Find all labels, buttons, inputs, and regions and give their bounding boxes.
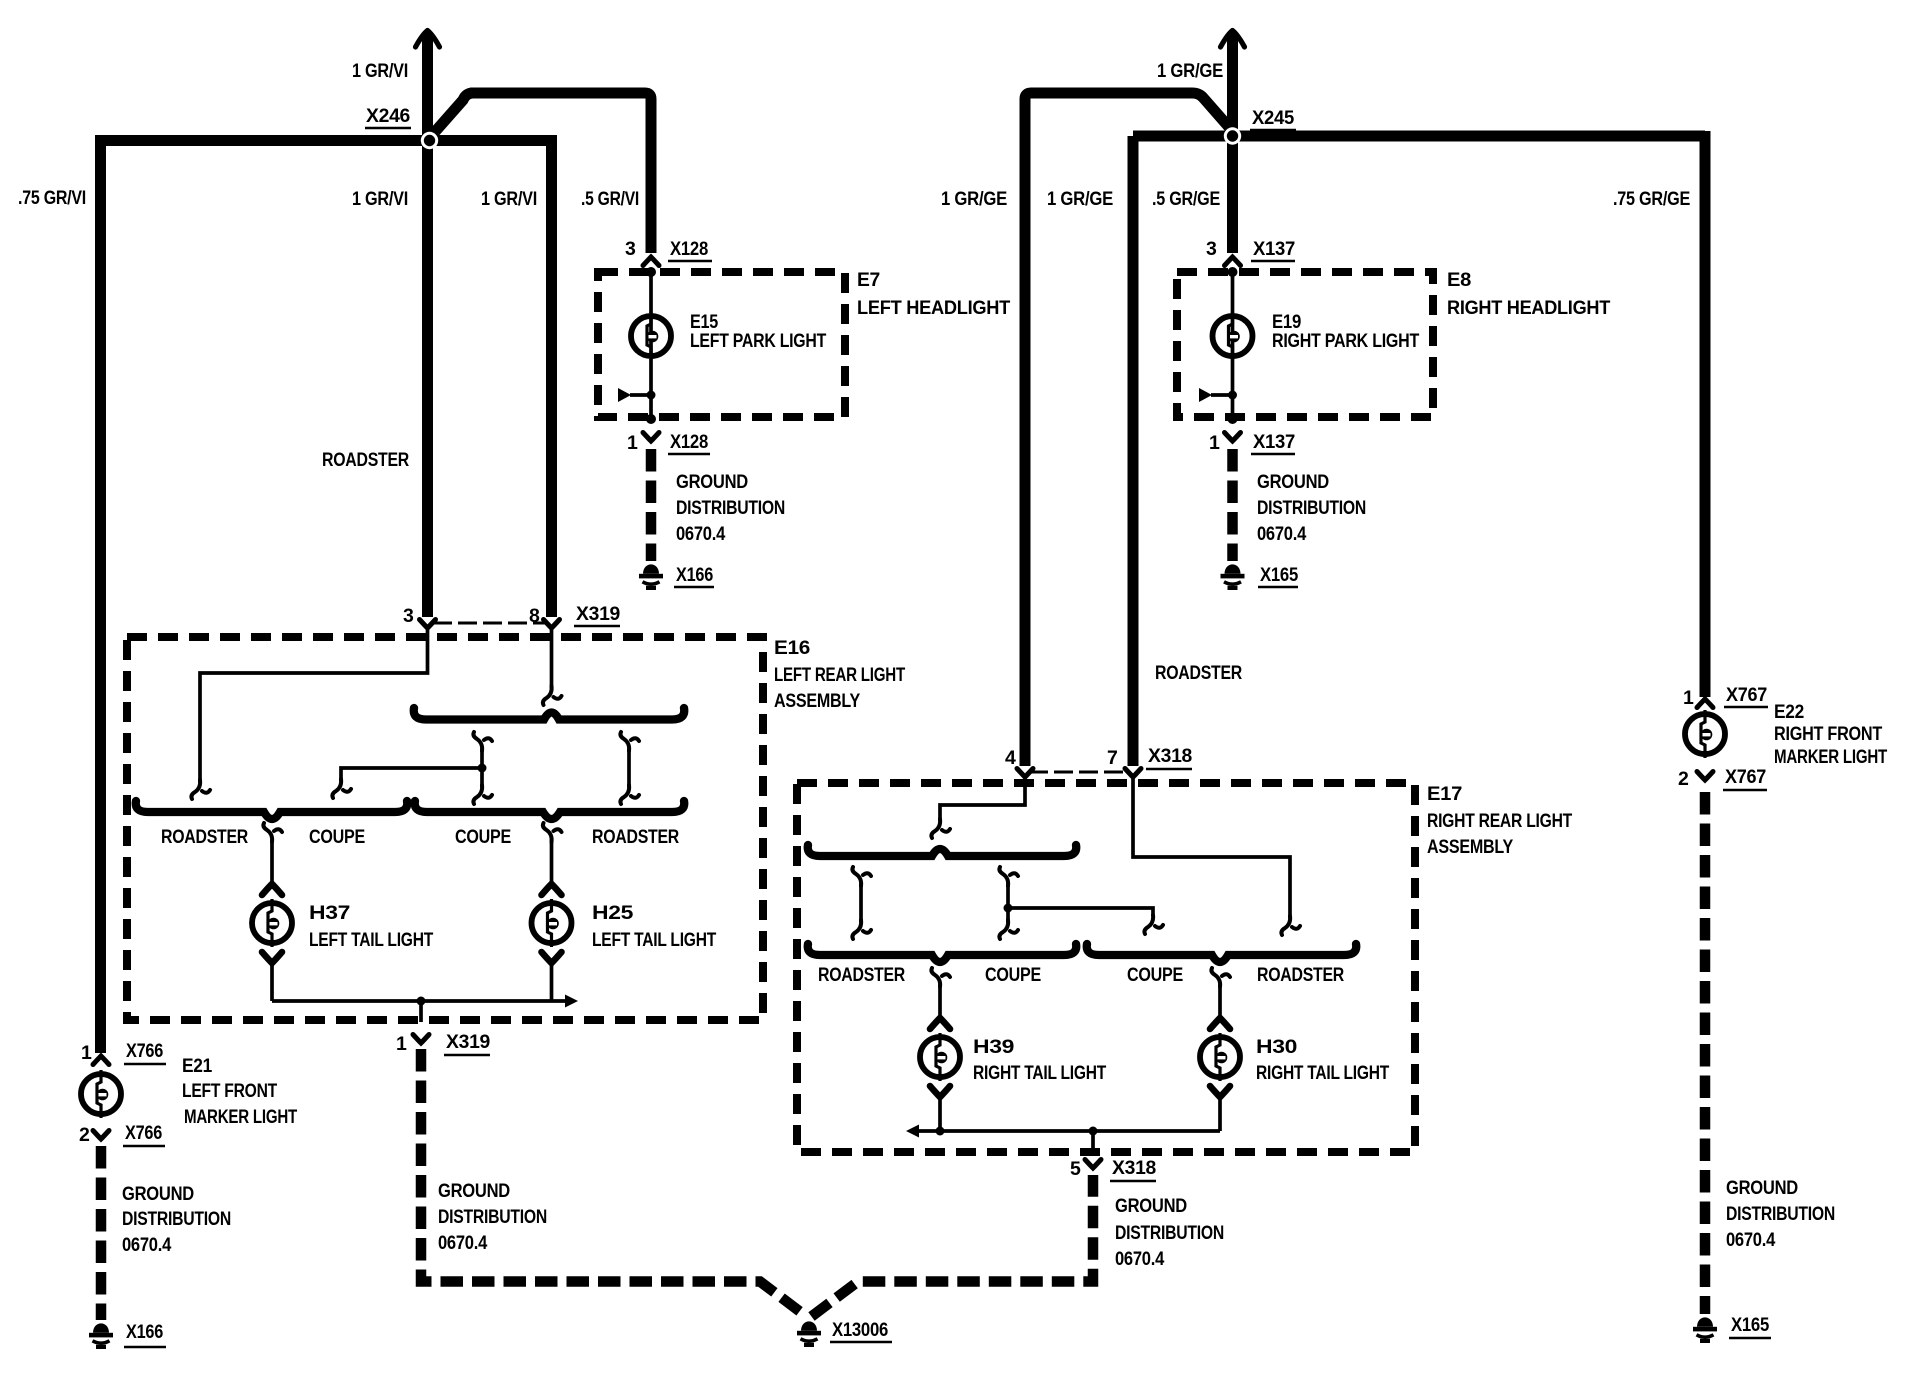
jumper E17 right xyxy=(999,867,1018,939)
svg-text:ASSEMBLY: ASSEMBLY xyxy=(1427,836,1513,858)
lamp H25 left tail light xyxy=(532,884,572,1001)
jumper E17 left xyxy=(852,867,871,939)
svg-text:1 GR/GE: 1 GR/GE xyxy=(1157,60,1223,82)
svg-text:ROADSTER: ROADSTER xyxy=(818,964,905,986)
wire E16 ground bus xyxy=(272,995,578,1023)
svg-text:0670.4: 0670.4 xyxy=(122,1234,171,1256)
pin 4 X318 xyxy=(1005,747,1033,777)
svg-text:COUPE: COUPE xyxy=(455,826,511,848)
wire pin3 branch to roadster xyxy=(200,628,428,780)
wire to H30 xyxy=(1218,988,1222,1018)
svg-text:RIGHT PARK LIGHT: RIGHT PARK LIGHT xyxy=(1272,330,1419,352)
node label X246 xyxy=(365,105,411,128)
svg-text:GROUND: GROUND xyxy=(676,471,748,493)
svg-text:GROUND: GROUND xyxy=(438,1180,510,1202)
bracket E16 lower left xyxy=(136,801,408,819)
svg-text:1: 1 xyxy=(1683,687,1694,709)
svg-text:0670.4: 0670.4 xyxy=(1257,523,1306,545)
svg-text:0670.4: 0670.4 xyxy=(1726,1229,1775,1251)
svg-text:COUPE: COUPE xyxy=(309,826,365,848)
svg-text:X128: X128 xyxy=(670,238,708,260)
wire 1 GR/VI vertical trunk xyxy=(416,31,440,618)
ground distribution text X319 xyxy=(438,1180,547,1254)
svg-text:MARKER LIGHT: MARKER LIGHT xyxy=(1774,746,1887,768)
svg-text:X766: X766 xyxy=(126,1040,163,1062)
lamp E15 left park light xyxy=(631,312,671,360)
svg-text:DISTRIBUTION: DISTRIBUTION xyxy=(1257,497,1366,519)
svg-text:.5 GR/GE: .5 GR/GE xyxy=(1152,188,1220,210)
lamp E21 left front marker light xyxy=(81,1070,121,1118)
label E15 xyxy=(690,311,826,352)
ground X165 (E8) xyxy=(1221,564,1299,590)
svg-text:E17: E17 xyxy=(1427,783,1462,805)
svg-text:H25: H25 xyxy=(592,902,634,924)
ground X13006 xyxy=(797,1319,892,1347)
svg-text:.75 GR/GE: .75 GR/GE xyxy=(1613,188,1690,210)
label E19 xyxy=(1272,311,1419,352)
svg-text:X165: X165 xyxy=(1731,1314,1769,1336)
svg-text:X767: X767 xyxy=(1726,684,1767,706)
wire GR/GE horizontal bus xyxy=(1133,131,1705,142)
svg-text:X767: X767 xyxy=(1725,766,1766,788)
hook pin8 feed xyxy=(543,686,562,705)
box E8 right headlight xyxy=(1177,272,1433,417)
svg-text:7: 7 xyxy=(1107,747,1118,769)
box E16 left rear light assembly xyxy=(127,637,763,1020)
pin 1 X767 xyxy=(1683,684,1768,709)
label H25 xyxy=(592,902,716,951)
svg-text:1 GR/VI: 1 GR/VI xyxy=(352,60,408,82)
label E17 xyxy=(1427,783,1572,858)
svg-text:ROADSTER: ROADSTER xyxy=(161,826,248,848)
svg-text:COUPE: COUPE xyxy=(1127,964,1183,986)
pin 1 X319 xyxy=(396,1031,490,1055)
svg-text:1 GR/GE: 1 GR/GE xyxy=(941,188,1007,210)
label H30 xyxy=(1256,1036,1389,1084)
pin 8 X319 xyxy=(529,605,560,628)
svg-text:1 GR/GE: 1 GR/GE xyxy=(1047,188,1113,210)
svg-text:LEFT PARK LIGHT: LEFT PARK LIGHT xyxy=(690,330,826,352)
bracket E16 upper xyxy=(414,708,685,720)
svg-text:DISTRIBUTION: DISTRIBUTION xyxy=(1726,1203,1835,1225)
connector link X319 dashed xyxy=(433,622,545,625)
svg-text:X318: X318 xyxy=(1112,1157,1156,1179)
svg-text:X318: X318 xyxy=(1148,745,1192,767)
svg-text:RIGHT HEADLIGHT: RIGHT HEADLIGHT xyxy=(1447,297,1610,319)
label X318 top xyxy=(1146,745,1192,769)
ground distribution text E21 xyxy=(122,1183,231,1256)
bracket E17 lower right xyxy=(1087,944,1357,962)
wire diagonal from X246 to .5 GR/VI xyxy=(430,93,474,138)
svg-text:COUPE: COUPE xyxy=(985,964,1041,986)
svg-text:DISTRIBUTION: DISTRIBUTION xyxy=(676,497,785,519)
wire E15 internal xyxy=(646,267,656,424)
svg-text:LEFT FRONT: LEFT FRONT xyxy=(182,1080,277,1102)
svg-text:MARKER LIGHT: MARKER LIGHT xyxy=(184,1106,297,1128)
lamp H39 right tail light xyxy=(920,1018,960,1131)
wire E19 internal xyxy=(1228,267,1238,424)
wire E17 ground bus xyxy=(906,1125,1220,1153)
svg-text:3: 3 xyxy=(1206,238,1217,260)
svg-text:1: 1 xyxy=(627,432,638,454)
wire .75 GR/GE right vertical to E22 xyxy=(1700,131,1711,697)
svg-text:X137: X137 xyxy=(1253,431,1295,453)
svg-text:LEFT REAR LIGHT: LEFT REAR LIGHT xyxy=(774,664,905,686)
svg-text:GROUND: GROUND xyxy=(122,1183,194,1205)
wire 1 GR/GE to pin 4 X318 xyxy=(1025,93,1232,766)
pin 3 X137 xyxy=(1206,238,1295,266)
pin 5 X318 xyxy=(1070,1157,1156,1181)
svg-text:DISTRIBUTION: DISTRIBUTION xyxy=(1115,1222,1224,1244)
svg-text:.75 GR/VI: .75 GR/VI xyxy=(18,187,86,209)
svg-text:X166: X166 xyxy=(126,1321,163,1343)
svg-text:X319: X319 xyxy=(446,1031,490,1053)
ground X166 (E21) xyxy=(89,1321,166,1349)
jumper E16 right xyxy=(620,732,639,804)
bracket E16 lower right xyxy=(415,801,685,819)
ground X166 (E7) xyxy=(639,564,714,590)
ground wire X767 to X165 xyxy=(1700,792,1711,1314)
svg-text:4: 4 xyxy=(1005,747,1016,769)
svg-text:2: 2 xyxy=(79,1124,90,1146)
label X319 top xyxy=(574,603,620,626)
svg-text:RIGHT REAR LIGHT: RIGHT REAR LIGHT xyxy=(1427,810,1572,832)
ground wire from X128 xyxy=(646,449,657,561)
svg-text:0670.4: 0670.4 xyxy=(676,523,725,545)
label H39 xyxy=(973,1036,1106,1084)
wire .5 GR/VI to X128 xyxy=(470,93,651,253)
label E16 xyxy=(774,637,905,712)
label E7 xyxy=(857,269,1010,319)
hook H37 feed xyxy=(263,823,282,842)
svg-text:1: 1 xyxy=(81,1042,92,1064)
svg-text:ASSEMBLY: ASSEMBLY xyxy=(774,690,860,712)
jumper E16 left xyxy=(473,732,492,804)
svg-text:2: 2 xyxy=(1678,768,1689,790)
svg-text:X165: X165 xyxy=(1260,564,1298,586)
svg-text:E21: E21 xyxy=(182,1055,212,1077)
wire to H39 xyxy=(938,988,942,1018)
lamp E19 right park light xyxy=(1213,312,1253,360)
svg-text:H37: H37 xyxy=(309,902,350,924)
svg-text:E8: E8 xyxy=(1447,269,1471,291)
ground terminal arrow E8 xyxy=(1199,388,1237,402)
svg-text:1: 1 xyxy=(1209,432,1220,454)
label E22 xyxy=(1774,701,1887,768)
svg-text:X246: X246 xyxy=(366,105,410,127)
svg-text:3: 3 xyxy=(403,605,414,627)
svg-text:0670.4: 0670.4 xyxy=(438,1232,487,1254)
hook pin4 feed xyxy=(931,819,950,838)
svg-text:E16: E16 xyxy=(774,637,810,659)
svg-text:GROUND: GROUND xyxy=(1726,1177,1798,1199)
hook roadster feed (E17) xyxy=(1281,916,1300,935)
wire pin7 branch to roadster xyxy=(1133,777,1290,917)
bracket E17 upper xyxy=(808,845,1077,856)
junction X245 xyxy=(1224,127,1241,144)
hook coupe feed (E17) xyxy=(1144,915,1163,934)
svg-text:X245: X245 xyxy=(1252,107,1294,129)
lamp E22 right front marker light xyxy=(1685,710,1725,758)
ground wire X319 to X13006 xyxy=(421,1049,1093,1317)
lamp H37 left tail light xyxy=(252,884,292,1001)
ground distribution text E7 xyxy=(676,471,785,545)
ground distribution text E8 xyxy=(1257,471,1366,545)
wire .75 GR/VI horizontal bus xyxy=(100,135,556,146)
pin 1 X128 xyxy=(627,431,710,454)
svg-text:RIGHT FRONT: RIGHT FRONT xyxy=(1774,723,1882,745)
svg-text:3: 3 xyxy=(625,238,636,260)
box E17 right rear light assembly xyxy=(797,783,1415,1152)
pin 2 X767 xyxy=(1678,766,1767,790)
node label X245 xyxy=(1250,107,1296,130)
svg-text:E7: E7 xyxy=(857,269,880,291)
wire 1 GR/GE to pin 7 X318 xyxy=(1128,136,1139,766)
hook roadster feed xyxy=(191,780,210,799)
svg-text:GROUND: GROUND xyxy=(1257,471,1329,493)
svg-text:X166: X166 xyxy=(676,564,713,586)
ground wire from X137 xyxy=(1227,449,1238,561)
ground distribution text X318 xyxy=(1115,1195,1224,1270)
svg-text:H30: H30 xyxy=(1256,1036,1298,1058)
wire pin8 to bracket xyxy=(550,628,554,687)
svg-text:LEFT TAIL LIGHT: LEFT TAIL LIGHT xyxy=(592,929,716,951)
lamp H30 right tail light xyxy=(1200,1018,1240,1131)
bracket E17 lower left xyxy=(808,944,1077,962)
svg-text:RIGHT TAIL LIGHT: RIGHT TAIL LIGHT xyxy=(973,1062,1106,1084)
svg-text:ROADSTER: ROADSTER xyxy=(1155,662,1242,684)
svg-text:ROADSTER: ROADSTER xyxy=(322,449,409,471)
hook H39 feed xyxy=(931,968,950,987)
wire pin4 branch to bracket xyxy=(940,777,1025,820)
wire to H25 xyxy=(550,842,554,884)
ground terminal arrow E7 xyxy=(618,388,656,402)
label H37 xyxy=(309,902,433,951)
svg-text:GROUND: GROUND xyxy=(1115,1195,1187,1217)
svg-text:1: 1 xyxy=(396,1033,407,1055)
svg-text:X13006: X13006 xyxy=(832,1319,888,1341)
pin 3 X319 xyxy=(403,605,436,628)
hook H25 feed xyxy=(543,823,562,842)
hook coupe feed xyxy=(332,779,351,798)
svg-text:H39: H39 xyxy=(973,1036,1015,1058)
junction X246 xyxy=(421,132,438,149)
svg-text:ROADSTER: ROADSTER xyxy=(592,826,679,848)
svg-text:5: 5 xyxy=(1070,1158,1081,1180)
svg-text:1 GR/VI: 1 GR/VI xyxy=(481,188,537,210)
svg-text:E22: E22 xyxy=(1774,701,1804,723)
svg-text:RIGHT TAIL LIGHT: RIGHT TAIL LIGHT xyxy=(1256,1062,1389,1084)
connector link X318 dashed xyxy=(1029,771,1124,774)
svg-text:X319: X319 xyxy=(576,603,620,625)
wire coupe branch (E17) xyxy=(1004,904,1154,917)
svg-text:DISTRIBUTION: DISTRIBUTION xyxy=(438,1206,547,1228)
ground wire X766 to X166 xyxy=(96,1146,107,1320)
svg-text:X766: X766 xyxy=(125,1122,162,1144)
wire 1 GR/GE vertical trunk xyxy=(1221,31,1245,254)
label E8 xyxy=(1447,269,1610,319)
pin 1 X766 xyxy=(81,1040,166,1065)
svg-text:ROADSTER: ROADSTER xyxy=(1257,964,1344,986)
svg-text:0670.4: 0670.4 xyxy=(1115,1248,1164,1270)
hook H30 feed xyxy=(1211,968,1230,987)
pin 3 X128 xyxy=(625,238,712,266)
box E7 left headlight xyxy=(598,272,845,417)
ground distribution text E22 xyxy=(1726,1177,1835,1251)
svg-text:X137: X137 xyxy=(1253,238,1295,260)
pin 7 X318 xyxy=(1107,747,1141,777)
svg-text:.5 GR/VI: .5 GR/VI xyxy=(581,188,639,210)
pin 2 X766 xyxy=(79,1122,165,1146)
ground X165 (E22) xyxy=(1693,1314,1771,1343)
svg-text:LEFT HEADLIGHT: LEFT HEADLIGHT xyxy=(857,297,1010,319)
svg-text:1 GR/VI: 1 GR/VI xyxy=(352,188,408,210)
wire 1 GR/VI to pin 8 X319 xyxy=(546,135,557,617)
label E21 xyxy=(182,1055,297,1128)
wire .75 GR/VI left vertical to E21 xyxy=(95,135,106,1053)
svg-text:LEFT TAIL LIGHT: LEFT TAIL LIGHT xyxy=(309,929,433,951)
pin 1 X137 xyxy=(1209,431,1295,454)
wire coupe branch xyxy=(341,764,487,780)
svg-text:DISTRIBUTION: DISTRIBUTION xyxy=(122,1208,231,1230)
svg-text:X128: X128 xyxy=(670,431,708,453)
wire to H37 xyxy=(270,842,274,884)
